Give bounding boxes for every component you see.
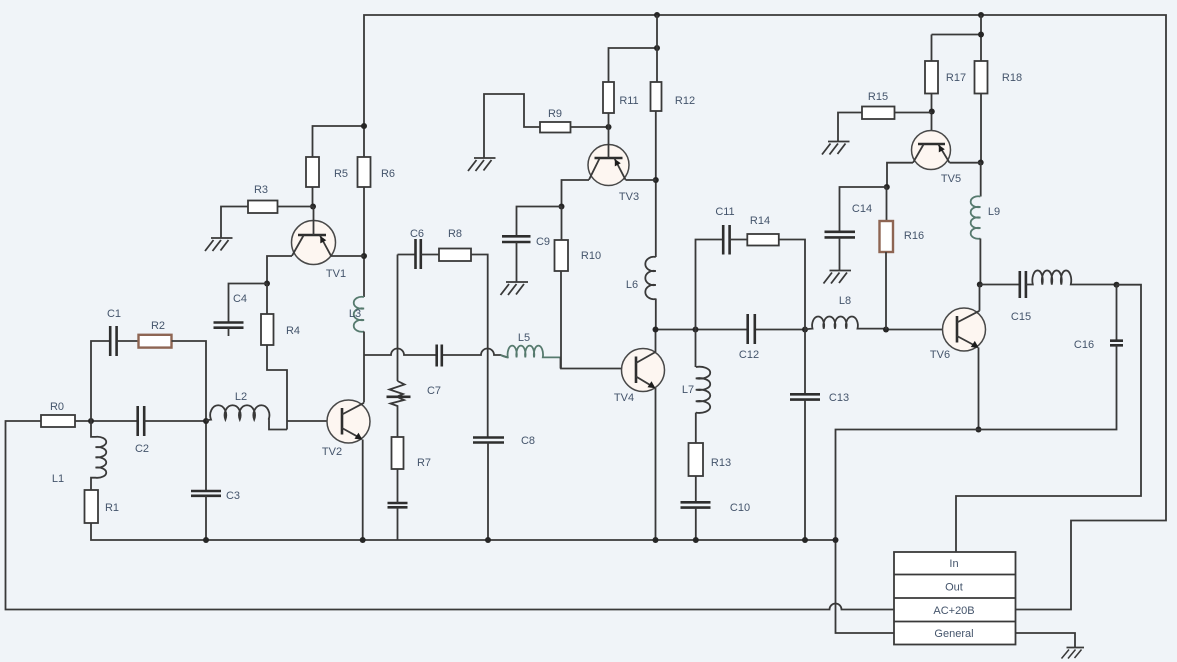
node: C10 on rail — [693, 537, 699, 543]
transistor TV2 — [327, 400, 370, 443]
wire: R6 bottom through TV1 emitter node to L3 — [363, 187, 365, 297]
svg-text:TV2: TV2 — [322, 446, 342, 458]
node: TV2 emitter on rail — [360, 537, 366, 543]
svg-text:In: In — [949, 558, 958, 570]
node: TV4 emitter on rail — [653, 537, 659, 543]
wire: R12 column from rail — [656, 15, 658, 82]
wire: C6/R8 top branch — [398, 254, 416, 256]
connector block — [894, 552, 1016, 645]
wire: C6 to R8 — [421, 254, 439, 256]
wire: C1 to R2 — [117, 340, 139, 342]
wire: C9 to ground — [516, 242, 518, 282]
wire: node to C14 — [840, 187, 887, 232]
svg-text:R4: R4 — [286, 325, 300, 337]
node: L9/C15/TV6 collector — [977, 282, 983, 288]
wire: C11 to R14 — [730, 239, 748, 241]
capacitor C16 — [1110, 341, 1123, 346]
wire: R14 right leg down — [779, 240, 805, 330]
wire: R0 left lead, left feedback column and long AC+20B wire with hop — [6, 421, 895, 610]
capacitor C11 — [723, 225, 729, 255]
wire: TV5 left leg to C14/R16 node — [887, 163, 913, 187]
resistor R8 — [439, 249, 471, 262]
wire: L9 bottom to TV6 collector node — [979, 239, 981, 285]
capacitor C12 (series) — [748, 314, 755, 344]
wire: R11 top branch — [609, 48, 658, 127]
resistor R0 — [41, 415, 75, 427]
svg-text:R17: R17 — [946, 72, 966, 84]
inductor L1 — [91, 421, 106, 490]
ground (output General) — [1062, 648, 1085, 659]
wire: TV1 collector to C4/R4 node — [267, 256, 292, 284]
resistor R3 — [248, 201, 278, 214]
wire: R12 bottom through TV3 node to L6 — [655, 111, 657, 257]
svg-text:R1: R1 — [105, 502, 119, 514]
node: R14/C13/L8 branch — [802, 327, 808, 333]
svg-text:R16: R16 — [904, 230, 924, 242]
node: R11 branch on R12 column — [654, 45, 660, 51]
wire: C4 bottom stub — [228, 328, 230, 336]
capacitor C9 — [502, 236, 531, 242]
wire: R10 top lead — [561, 207, 563, 241]
wire: C14 to ground — [839, 237, 841, 270]
node: TV1 right leg on R6 column — [361, 253, 367, 259]
svg-text:C13: C13 — [829, 392, 849, 404]
wire: R8 right leg down to C8 — [471, 255, 488, 438]
node: C11/L7 branch — [693, 327, 699, 333]
node: C4/R4 junction — [264, 281, 270, 287]
wire: R3 left lead to ground — [221, 207, 248, 239]
resistor R6 — [358, 157, 371, 187]
ground (below C9) — [501, 282, 529, 295]
wire: R13 to C10 — [695, 476, 697, 502]
wire: R4 bottom step to TV2 base column — [267, 345, 287, 430]
svg-text:C6: C6 — [410, 228, 424, 240]
wire: interstage wire y=329.5 with C12 — [656, 329, 806, 331]
svg-text:TV3: TV3 — [619, 191, 639, 203]
wire: C16 lower lead, out wire and General column — [836, 345, 1117, 633]
svg-text:C10: C10 — [730, 502, 750, 514]
svg-text:C15: C15 — [1011, 311, 1031, 323]
node: rail junction above R18 — [978, 12, 984, 18]
resistor R11 — [603, 82, 614, 113]
wire: C6/R8 left leg vertical — [397, 255, 399, 382]
inductor L7 — [696, 367, 710, 413]
wire: R3 right lead — [278, 206, 314, 208]
node: C8 on rail — [485, 537, 491, 543]
node: C14/R16 junction — [884, 184, 890, 190]
wire: TV2 emitter down to rail — [362, 440, 364, 541]
wire: L3 bottom to TV2 collector — [363, 332, 365, 403]
inductor L9 (teal) — [971, 196, 981, 239]
wire: TV3 right leg — [626, 179, 656, 181]
node: TV6 emitter on out wire — [976, 427, 982, 433]
node: R16 bottom on TV6 base wire — [883, 327, 889, 333]
transistor TV6 — [943, 308, 986, 351]
svg-text:R0: R0 — [50, 401, 64, 413]
svg-text:L7: L7 — [682, 384, 694, 396]
svg-text:C16: C16 — [1074, 339, 1094, 351]
svg-text:C1: C1 — [107, 308, 121, 320]
wire: R16 top lead — [886, 187, 888, 221]
inductor L2 — [206, 405, 287, 429]
wire: R10 bottom to TV4 base — [561, 271, 636, 369]
wire: C16 upper lead — [1116, 285, 1118, 341]
svg-text:R10: R10 — [581, 250, 601, 262]
svg-text:L5: L5 — [518, 332, 530, 344]
svg-text:C11: C11 — [715, 206, 734, 218]
node: C13 on rail — [802, 537, 808, 543]
wire: L6 bottom to TV4 collector node — [655, 299, 657, 330]
capacitor C1 — [110, 326, 116, 356]
transistor TV5 — [912, 131, 951, 170]
wire: C3 lower lead — [205, 496, 207, 540]
svg-text:L2: L2 — [235, 391, 247, 403]
wire: R18 bottom to TV5 right node — [980, 94, 982, 163]
resistor R7 — [392, 437, 404, 469]
svg-text:R8: R8 — [448, 228, 462, 240]
resistor R18 — [975, 61, 988, 94]
capacitor C13 — [790, 394, 820, 399]
capacitor below R7 — [388, 503, 408, 507]
svg-text:R5: R5 — [334, 168, 348, 180]
capacitor C15 (series) — [1020, 271, 1026, 298]
capacitor C3 — [191, 491, 221, 496]
svg-text:AC+20B: AC+20B — [933, 605, 974, 617]
svg-text:R14: R14 — [750, 215, 770, 227]
resistor R15 — [862, 107, 895, 120]
ground (below R3) — [205, 238, 233, 251]
svg-text:L6: L6 — [626, 279, 638, 291]
resistor R9 — [540, 122, 571, 133]
wire: TV5 right leg — [950, 162, 982, 164]
inductor L3 (teal) — [354, 297, 364, 332]
capacitor C2 (series in main wire) — [138, 406, 145, 436]
wire: input node up to C1/R2 branch — [91, 341, 110, 421]
node: TV3 right leg on R12 column — [653, 177, 659, 183]
wire: C10 lower lead — [695, 508, 697, 540]
node: C16 top junction — [1114, 282, 1120, 288]
node: C9/R10 junction — [559, 204, 565, 210]
svg-text:R15: R15 — [868, 91, 888, 103]
resistor R12 — [651, 82, 662, 111]
wire: R9 to R11 bottom node — [571, 126, 609, 128]
inductor L6 — [645, 257, 655, 299]
resistor R17 — [925, 61, 938, 94]
wire: y126 branch to R5 — [313, 126, 365, 157]
svg-text:TV5: TV5 — [941, 173, 961, 185]
node: junction top of R6 column — [361, 123, 367, 129]
wire: R16 bottom lead — [885, 252, 887, 330]
svg-text:L3: L3 — [349, 308, 361, 320]
svg-text:R18: R18 — [1002, 72, 1022, 84]
wire: General right to ground — [1016, 633, 1076, 648]
capacitor C14 — [825, 232, 856, 238]
wire: L7 to R13 — [695, 413, 697, 443]
transistor TV4 — [622, 349, 665, 392]
svg-text:C12: C12 — [739, 349, 759, 361]
wire: C13 branch — [804, 330, 806, 395]
wire: TV3 left leg to C9/R10 node — [562, 180, 590, 207]
svg-text:L1: L1 — [52, 473, 64, 485]
wire: TV2 base wire — [287, 420, 342, 422]
node: R3/R5/TV1 base — [310, 204, 316, 210]
svg-text:C7: C7 — [427, 385, 441, 397]
wire: node to R4 — [266, 284, 268, 315]
resistor R16 (brown) — [880, 221, 894, 252]
resistor R4 — [261, 314, 274, 345]
wire: L9 top lead — [980, 163, 982, 197]
svg-text:R13: R13 — [711, 457, 731, 469]
resistor R13 — [689, 443, 704, 476]
svg-text:L9: L9 — [988, 206, 1000, 218]
resistor R2 (brown) — [139, 335, 172, 348]
wire: C15 branch — [980, 284, 1020, 286]
wire: R15 right lead — [895, 112, 932, 114]
node: C3 on rail — [203, 537, 209, 543]
svg-text:C8: C8 — [521, 435, 535, 447]
node: R15/R17/TV5 base — [929, 109, 935, 115]
wire: C13 lower lead — [804, 400, 806, 540]
wire: R7 cap leads — [397, 469, 399, 540]
transistor TV3 — [588, 145, 629, 186]
wire: R2 right, down to main node and C3 — [172, 341, 207, 491]
transistor TV1 — [292, 221, 336, 265]
node: input node — [88, 418, 94, 424]
svg-text:TV1: TV1 — [326, 268, 346, 280]
wire: L7 top lead — [695, 330, 697, 368]
wire: TV4 collector up to node — [655, 330, 657, 353]
zigzag element below C6 left leg — [390, 381, 405, 397]
node: R18 top branch — [978, 32, 984, 38]
wire: TV4 emitter down to rail — [655, 388, 657, 540]
svg-text:C2: C2 — [135, 443, 149, 455]
wire: C11/R14 loop left leg — [696, 240, 724, 330]
node: R9/R11/TV3 base — [606, 124, 612, 130]
wire: R0 to input node — [75, 420, 138, 422]
svg-text:R11: R11 — [619, 95, 638, 107]
svg-text:R12: R12 — [675, 95, 695, 107]
resistor R5 — [306, 157, 319, 187]
wire: to In row, down right side — [956, 285, 1141, 552]
capacitor C4 — [214, 323, 244, 328]
wire: node to C4 — [229, 284, 268, 323]
ground (below R9 step) — [468, 158, 496, 171]
svg-text:TV4: TV4 — [614, 392, 634, 404]
svg-text:R2: R2 — [151, 320, 165, 332]
capacitor C8 — [473, 438, 504, 443]
wire: C8 lower lead — [487, 443, 489, 541]
wire: TV6 collector up — [979, 285, 981, 311]
wire: R15 left lead to ground — [838, 113, 862, 142]
svg-text:C14: C14 — [852, 203, 872, 215]
svg-text:General: General — [934, 628, 973, 640]
wire: TV1 emitter to R6 column — [331, 255, 364, 257]
wire: R1 to ground rail — [91, 523, 836, 540]
wire: TV6 emitter down to out wire — [978, 348, 980, 430]
svg-text:L8: L8 — [839, 295, 851, 307]
wire: L5 right corner down to TV4 base level — [560, 358, 562, 369]
resistor R10 — [555, 240, 569, 271]
node: rail junction above R12 — [654, 12, 660, 18]
node: TV4 collector node — [653, 327, 659, 333]
wire: mid wire from TV2 collector column with hops over C6 legs — [364, 349, 508, 358]
capacitor C10 — [681, 502, 711, 507]
svg-text:R3: R3 — [254, 184, 268, 196]
svg-text:R6: R6 — [381, 168, 395, 180]
wire: C2 to L2 node — [144, 420, 206, 422]
ground (below R15) — [822, 142, 850, 155]
svg-text:R7: R7 — [417, 457, 431, 469]
svg-text:R9: R9 — [548, 108, 562, 120]
ground (below C14) — [824, 271, 852, 284]
wire: L8 to TV6 base — [886, 329, 957, 331]
node: TV5 right leg / L9 — [978, 160, 984, 166]
wire: top +20V rail, right border drop and AC+20B feed — [364, 15, 1166, 610]
inductor L5 (teal) — [501, 346, 561, 358]
resistor R14 — [747, 234, 779, 246]
svg-text:C4: C4 — [233, 293, 247, 305]
wire: R17/R18 top branch — [932, 15, 982, 61]
svg-text:TV6: TV6 — [930, 349, 950, 361]
resistor R1 — [85, 490, 99, 523]
capacitor C7 (series) — [437, 345, 442, 367]
wire: R5 bottom to TV1 base node — [313, 187, 314, 207]
node: rail end / General column — [833, 537, 839, 543]
inductor L8 — [805, 316, 886, 329]
node: junction R2/C2/L2 — [203, 418, 209, 424]
capacitor C6 — [416, 239, 421, 269]
wire: R9 left step to ground — [484, 94, 540, 158]
wire: node to C9 — [517, 207, 562, 237]
svg-text:Out: Out — [945, 582, 963, 594]
wire: R17 bottom to TV5 base — [931, 94, 933, 145]
svg-text:C9: C9 — [536, 236, 550, 248]
svg-text:C3: C3 — [226, 490, 240, 502]
inductor (C15 coil) — [1026, 270, 1117, 284]
